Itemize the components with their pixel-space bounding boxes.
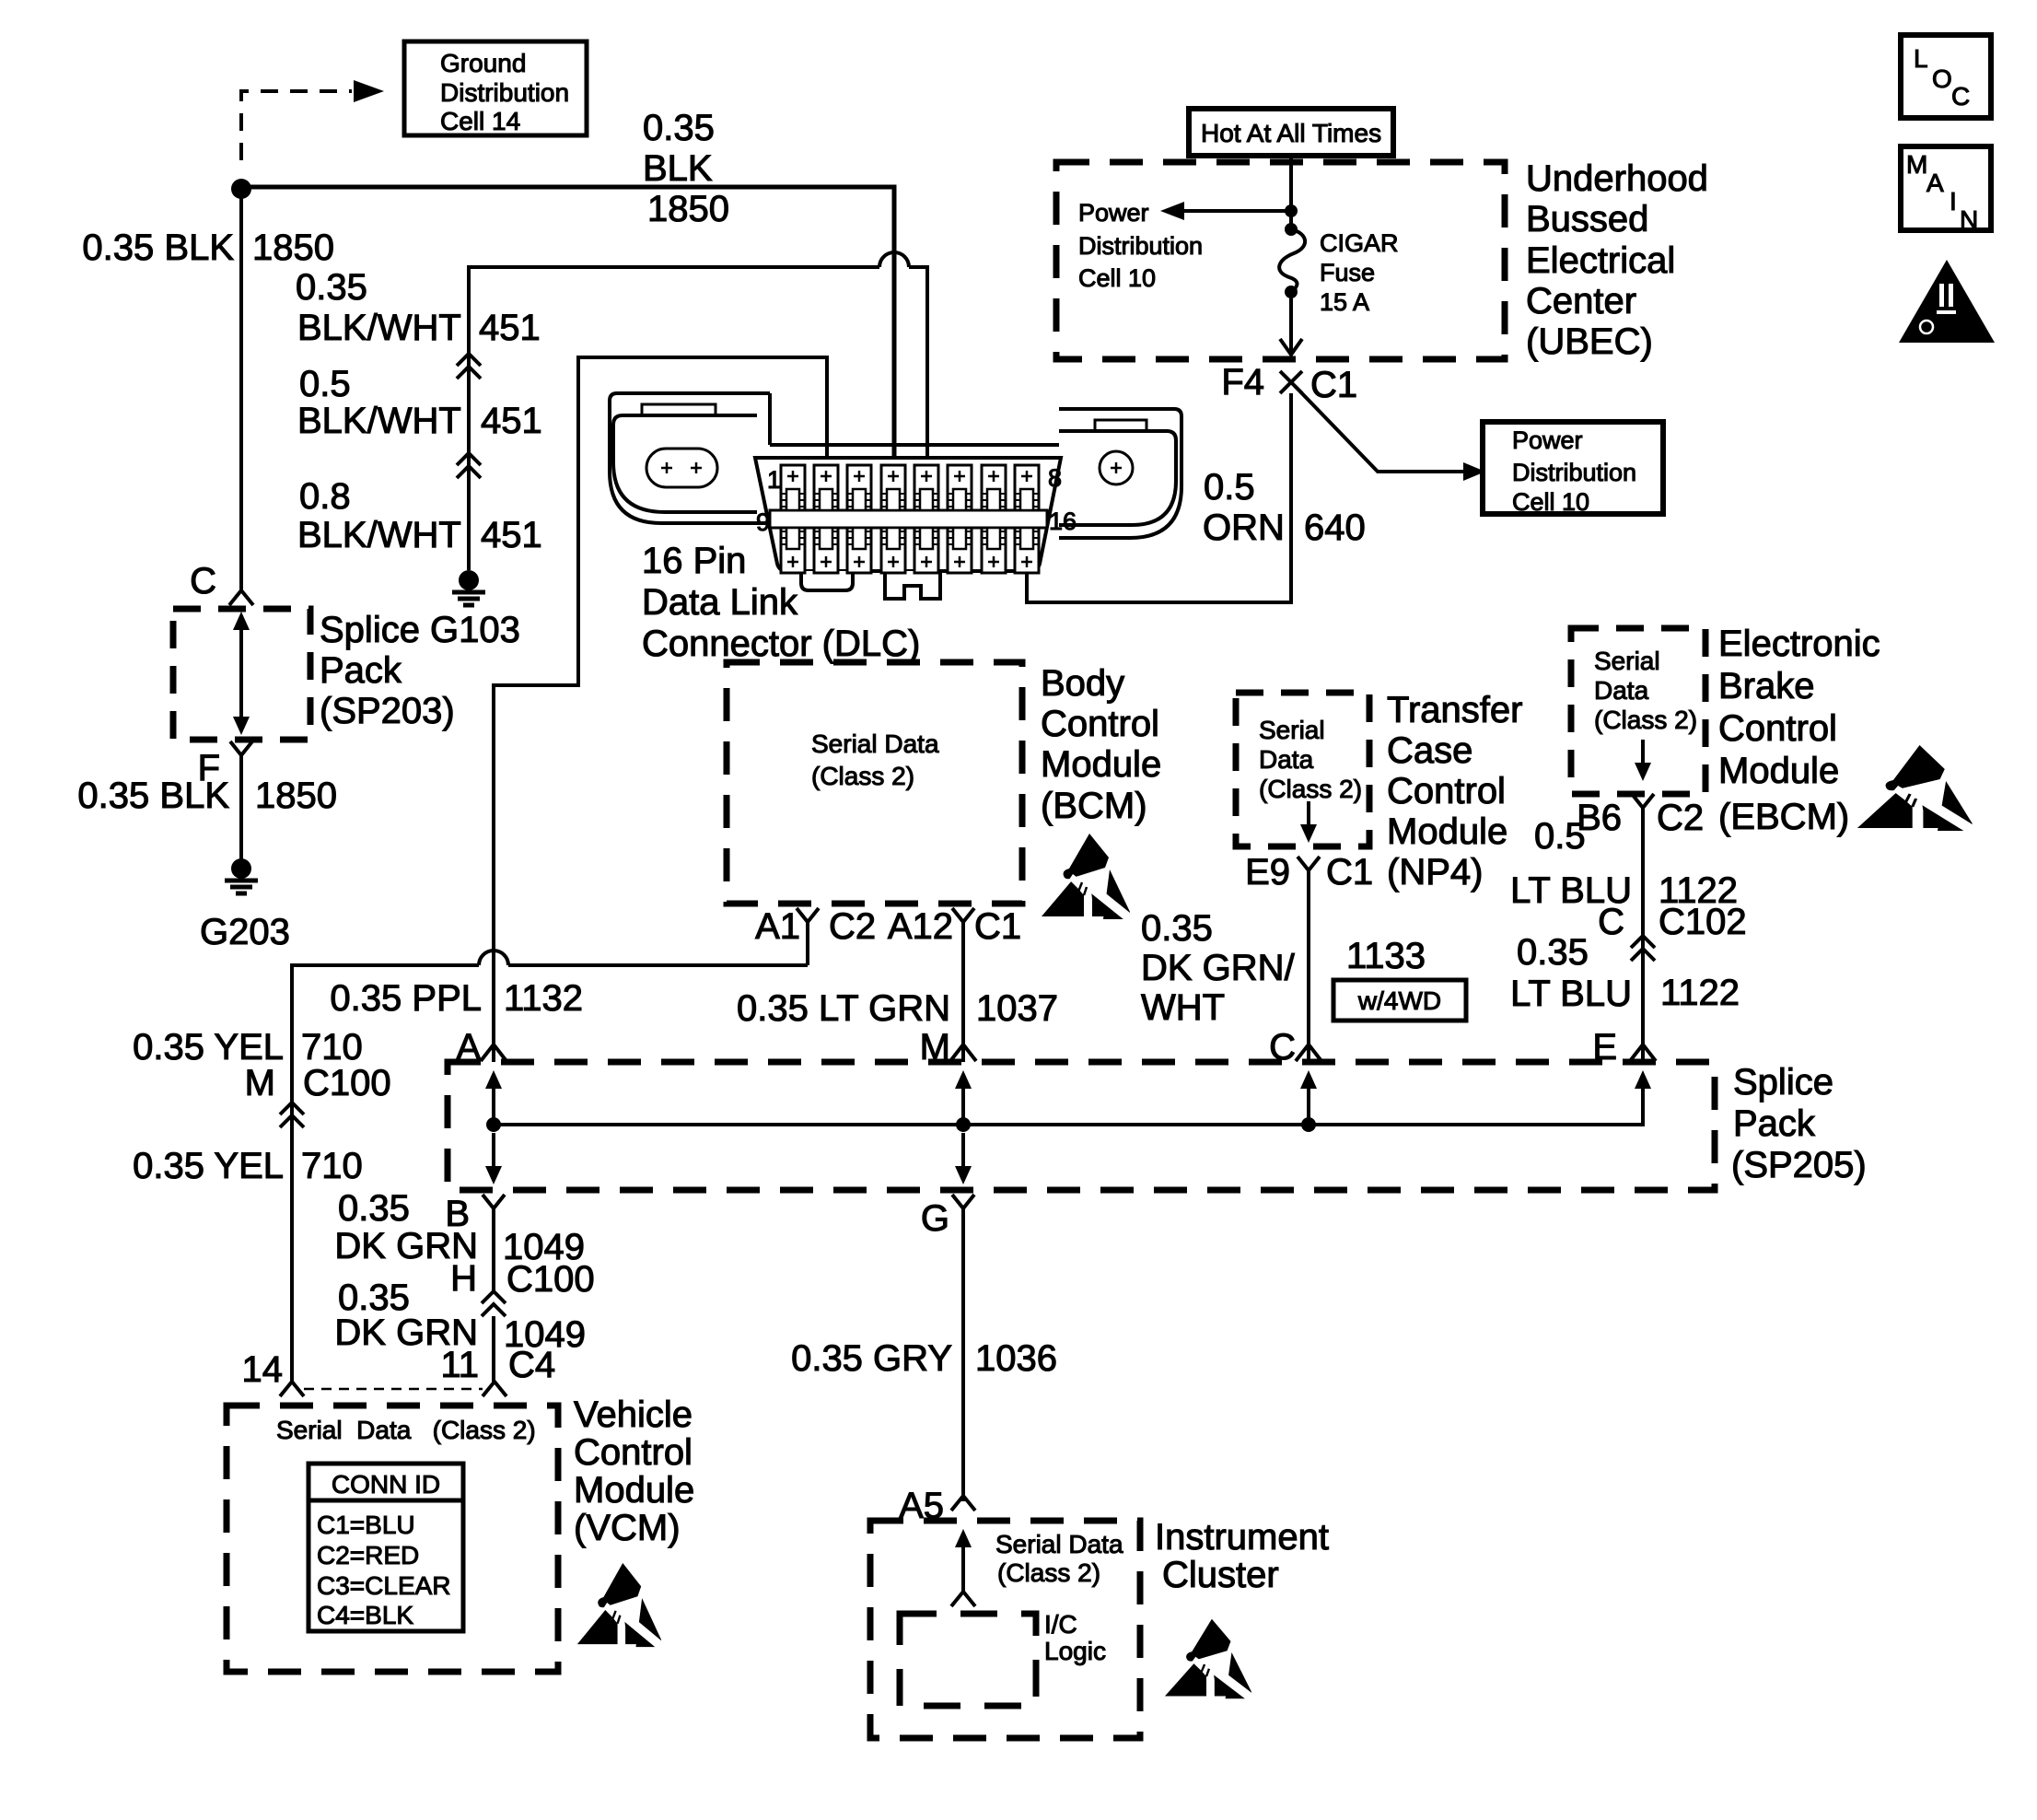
label 0.5 ORN 640 xyxy=(1203,467,1366,548)
svg-text:A: A xyxy=(1926,169,1944,197)
svg-text:Fuse: Fuse xyxy=(1320,259,1375,286)
svg-text:710: 710 xyxy=(301,1027,363,1067)
connector E9 C1 at transfer case xyxy=(1245,852,1373,892)
svg-text:451: 451 xyxy=(479,308,541,348)
svg-text:G203: G203 xyxy=(200,912,290,952)
svg-text:0.8: 0.8 xyxy=(299,476,351,517)
svg-text:0.35: 0.35 xyxy=(296,267,367,308)
svg-text:C: C xyxy=(1598,902,1624,942)
DLC pin 9 (bottom row) xyxy=(781,528,805,573)
svg-text:1122: 1122 xyxy=(1660,973,1740,1013)
wire 0.35 GRY 1036 from SP205 G to instrument cluster A5 xyxy=(961,1208,965,1501)
inline connector H / C100 xyxy=(450,1258,595,1316)
connector A1 C2 at BCM xyxy=(755,906,876,947)
SP205 internal arrows xyxy=(485,1070,502,1184)
svg-text:0.35 BLK: 0.35 BLK xyxy=(77,776,229,816)
svg-text:ORN: ORN xyxy=(1203,507,1285,548)
label 0.5 LT BLU 1122 xyxy=(1510,816,1738,911)
svg-text:Data: Data xyxy=(1594,676,1649,705)
DLC pin 10 (bottom row) xyxy=(814,528,838,573)
svg-text:Control: Control xyxy=(1387,771,1506,811)
svg-text:C1: C1 xyxy=(1310,365,1357,405)
wire 0.35 BLK 1850 to ground G203 xyxy=(239,755,243,860)
svg-text:1850: 1850 xyxy=(647,189,729,229)
svg-text:0.35 PPL: 0.35 PPL xyxy=(330,978,482,1019)
svg-text:A12: A12 xyxy=(888,906,953,947)
svg-text:16 Pin: 16 Pin xyxy=(642,541,746,581)
label 0.8 BLK/WHT 451 xyxy=(297,476,542,555)
wire 0.35 BLK 1850 left drop to connector C xyxy=(239,189,243,590)
label 0.5 BLK/WHT 451 xyxy=(297,364,542,441)
svg-text:C1=BLU: C1=BLU xyxy=(317,1511,415,1539)
label Vehicle Control Module (VCM) xyxy=(574,1394,694,1548)
DLC pin 15 (bottom row) xyxy=(982,528,1006,573)
connector A5 at instrument cluster xyxy=(899,1486,975,1526)
DLC pin 14 (bottom row) xyxy=(948,528,972,573)
svg-text:Splice: Splice xyxy=(1733,1062,1833,1102)
label 0.35 GRY 1036 xyxy=(791,1338,1057,1379)
svg-text:E9: E9 xyxy=(1245,852,1290,892)
svg-text:(EBCM): (EBCM) xyxy=(1718,797,1849,837)
svg-text:451: 451 xyxy=(481,515,542,555)
ESD symbol (VCM) xyxy=(577,1563,663,1648)
svg-text:Transfer: Transfer xyxy=(1387,690,1522,730)
svg-text:710: 710 xyxy=(301,1146,363,1186)
connector F below SP203 xyxy=(198,741,252,788)
junction node (splice of BLK 1850 wires) xyxy=(231,179,251,199)
svg-text:Data: Data xyxy=(1259,745,1314,774)
svg-text:1037: 1037 xyxy=(976,988,1058,1029)
svg-text:0.35: 0.35 xyxy=(1141,908,1213,949)
DLC pin number labels xyxy=(756,464,1077,536)
svg-text:I/C: I/C xyxy=(1044,1610,1077,1639)
svg-text:Cluster: Cluster xyxy=(1162,1555,1279,1595)
EBCM serial data dashed box xyxy=(1571,628,1705,794)
label 0.35 DK GRN 1049 (lower) xyxy=(334,1277,586,1355)
label 0.35 LT GRN 1037 xyxy=(737,988,1058,1029)
svg-text:640: 640 xyxy=(1304,507,1366,548)
svg-text:BLK/WHT: BLK/WHT xyxy=(297,401,461,441)
label Transfer Case Control Module (NP4) xyxy=(1387,690,1522,892)
svg-text:CONN ID: CONN ID xyxy=(332,1470,440,1499)
ground G203 xyxy=(200,858,290,952)
DLC pin 6 (top row) xyxy=(948,465,972,510)
label 0.35 DK GRN 1049 (upper) xyxy=(334,1188,585,1267)
label Serial Data (Class 2) in instrument cluster xyxy=(995,1530,1123,1587)
label 0.35 BLK 1850 (left) xyxy=(82,227,334,268)
svg-text:0.35 YEL: 0.35 YEL xyxy=(133,1146,284,1186)
UBEC dashed box xyxy=(1056,162,1505,359)
splice pack SP203 (Splice G103) xyxy=(173,609,520,740)
svg-text:451: 451 xyxy=(481,401,542,441)
svg-text:Serial Data (Class 2): Serial Data (Class 2) xyxy=(276,1416,536,1444)
svg-text:Electrical: Electrical xyxy=(1526,240,1675,281)
svg-text:WHT: WHT xyxy=(1141,987,1225,1028)
VCM pin 14 xyxy=(242,1349,305,1396)
connector G exit of SP205 xyxy=(921,1195,974,1239)
connector C at splice pack SP203 xyxy=(190,561,253,605)
wire 0.35 BLK 1850 top run to DLC pin 4 xyxy=(241,187,894,465)
svg-text:Cell 10: Cell 10 xyxy=(1078,264,1156,292)
svg-text:(Class 2): (Class 2) xyxy=(1259,775,1362,803)
inline connector C / C102 xyxy=(1598,902,1747,961)
svg-text:Distribution: Distribution xyxy=(1078,232,1203,260)
SP205 entry chevron M xyxy=(920,1027,976,1067)
svg-text:(SP203): (SP203) xyxy=(320,691,455,731)
svg-text:BLK/WHT: BLK/WHT xyxy=(297,515,461,555)
svg-text:Data Link: Data Link xyxy=(642,582,798,623)
label 0.35 PPL 1132 xyxy=(330,978,583,1019)
svg-text:Pack: Pack xyxy=(1733,1103,1816,1144)
svg-text:Power: Power xyxy=(1078,199,1149,227)
SP205 entry chevron A xyxy=(456,1027,506,1067)
svg-text:1133: 1133 xyxy=(1346,936,1426,976)
svg-text:BLK/WHT: BLK/WHT xyxy=(297,308,461,348)
I/C Logic inner dashed box xyxy=(900,1610,1106,1706)
svg-text:Serial: Serial xyxy=(1259,716,1325,744)
DLC pin 13 (bottom row) xyxy=(914,528,938,573)
svg-text:(Class 2): (Class 2) xyxy=(997,1558,1100,1587)
svg-text:M: M xyxy=(920,1027,950,1067)
svg-text:Control: Control xyxy=(1718,708,1837,749)
instrument cluster dashed box xyxy=(870,1521,1140,1738)
label Instrument Cluster xyxy=(1155,1517,1329,1595)
svg-text:(VCM): (VCM) xyxy=(574,1508,681,1548)
label Power Distribution Cell 10 (UBEC internal) xyxy=(1078,199,1203,292)
svg-text:0.5: 0.5 xyxy=(1204,467,1255,507)
svg-text:L: L xyxy=(1914,44,1928,73)
svg-text:I: I xyxy=(1950,187,1957,216)
SP205 entry chevron E xyxy=(1592,1027,1656,1067)
svg-text:w/4WD: w/4WD xyxy=(1357,986,1441,1015)
DLC pin 4 (top row) xyxy=(881,465,905,510)
box: Ground Distribution Cell 14 xyxy=(404,41,587,135)
wire 0.35 LT GRN 1037 from BCM A12 to SP205 M xyxy=(961,922,965,1062)
label 0.35 YEL 710 (lower) xyxy=(133,1146,363,1186)
internal arrow and connector in instrument cluster xyxy=(951,1529,975,1606)
ESD symbol (BCM) xyxy=(1042,834,1132,920)
label Electronic Brake Control Module (EBCM) xyxy=(1718,624,1880,837)
svg-text:DK GRN/: DK GRN/ xyxy=(1141,948,1296,988)
VCM pin 11 xyxy=(440,1345,555,1396)
svg-text:N: N xyxy=(1960,205,1978,234)
svg-text:C: C xyxy=(1951,82,1970,111)
svg-text:Connector (DLC): Connector (DLC) xyxy=(642,624,920,664)
svg-text:0.35 YEL: 0.35 YEL xyxy=(133,1027,284,1067)
svg-text:A1: A1 xyxy=(755,906,800,947)
svg-text:0.5: 0.5 xyxy=(1534,816,1586,857)
label Body Control Module (BCM) xyxy=(1041,663,1161,826)
svg-text:H: H xyxy=(450,1258,477,1299)
svg-text:Electronic: Electronic xyxy=(1718,624,1880,664)
label Serial Data (Class 2) in VCM xyxy=(276,1416,536,1444)
box Power Distribution Cell 10 xyxy=(1483,422,1663,516)
svg-text:0.35 GRY: 0.35 GRY xyxy=(791,1338,952,1379)
svg-text:0.35 BLK: 0.35 BLK xyxy=(82,227,234,268)
svg-text:Ground: Ground xyxy=(440,49,526,77)
svg-text:C1: C1 xyxy=(1326,852,1373,892)
svg-text:F4: F4 xyxy=(1221,362,1264,402)
svg-text:15 A: 15 A xyxy=(1320,288,1369,316)
DLC pin 12 (bottom row) xyxy=(881,528,905,573)
svg-text:8: 8 xyxy=(1048,464,1062,492)
svg-text:Control: Control xyxy=(1041,704,1159,744)
wire 0.5 ORN 640 from F4/C1 to DLC pin 16 xyxy=(1027,393,1291,602)
svg-text:C2=RED: C2=RED xyxy=(317,1541,419,1569)
wire from BCM A1 down to junction with yellow wire xyxy=(806,922,809,965)
BCM dashed box (Serial Data Class 2) xyxy=(727,662,1022,904)
svg-text:0.35: 0.35 xyxy=(1517,932,1589,973)
transfer case serial data dashed box xyxy=(1236,693,1369,846)
svg-text:C4=BLK: C4=BLK xyxy=(317,1601,413,1629)
svg-text:G: G xyxy=(921,1198,949,1239)
svg-text:14: 14 xyxy=(242,1349,284,1390)
label 0.35 LT BLU 1122 xyxy=(1510,932,1740,1014)
svg-text:C100: C100 xyxy=(303,1063,391,1103)
thin dashed pin row line xyxy=(304,1388,483,1391)
svg-text:Case: Case xyxy=(1387,730,1472,771)
wire 0.35 YEL 710 horizontal run (hop over PPL wire) to VCM pin 14 xyxy=(292,951,808,1382)
label 0.35 DK GRN/ WHT 1133 xyxy=(1141,908,1426,1028)
svg-text:Distribution: Distribution xyxy=(440,78,569,107)
svg-text:C: C xyxy=(190,561,216,601)
svg-text:C100: C100 xyxy=(506,1259,595,1300)
VCM dashed box xyxy=(227,1406,558,1672)
wire BLK/WHT 451 from G103 up and across to DLC pin 5 (with hop over pin-4 wire) xyxy=(469,252,927,570)
svg-text:Pack: Pack xyxy=(320,650,402,691)
svg-text:C102: C102 xyxy=(1659,902,1747,942)
label Underhood Bussed Electrical Center (UBEC) xyxy=(1526,158,1708,362)
DLC pin 5 (top row) xyxy=(914,465,938,510)
svg-text:Bussed: Bussed xyxy=(1526,199,1648,239)
connector B exit of SP205 xyxy=(445,1194,505,1234)
wire LT BLU 1122 from EBCM to SP205 E xyxy=(1641,808,1645,1062)
wire from Hot At All Times into UBEC xyxy=(1285,156,1298,226)
inline connector chevrons on 451 wire xyxy=(457,354,481,379)
inline connector M / C100 on yellow wire xyxy=(245,1063,391,1127)
DLC pin 8 (top row) xyxy=(1015,465,1039,510)
svg-text:1850: 1850 xyxy=(255,776,337,816)
svg-text:Cell 14: Cell 14 xyxy=(440,107,520,135)
wire 0.35 DK GRN 1049 from SP205 B to VCM pin 11 xyxy=(492,1208,495,1382)
label 0.35 BLK 1850 (G203 branch) xyxy=(77,776,337,816)
svg-text:C1: C1 xyxy=(974,906,1021,947)
svg-text:0.35: 0.35 xyxy=(338,1188,410,1229)
ground G103 xyxy=(452,570,485,605)
wire 0.35 PPL 1132 from DLC pin 2 to splice pack SP205 A xyxy=(494,357,827,1062)
svg-text:1: 1 xyxy=(767,466,781,494)
svg-text:Underhood: Underhood xyxy=(1526,158,1708,199)
connector F4 / C1 xyxy=(1221,362,1357,405)
LOC reference box xyxy=(1901,35,1991,118)
DLC pin 1 (top row) xyxy=(781,465,805,510)
svg-text:LT BLU: LT BLU xyxy=(1510,974,1632,1014)
cell reference dashed arrow to Ground Distribution Cell 14 xyxy=(241,80,384,160)
svg-text:Serial: Serial xyxy=(1594,647,1660,675)
connector A12 C1 at BCM xyxy=(888,906,1021,947)
box Hot At All Times xyxy=(1189,109,1393,156)
svg-text:(Class 2): (Class 2) xyxy=(1594,706,1697,734)
svg-text:1132: 1132 xyxy=(504,978,583,1019)
label 0.35 BLK/WHT 451 xyxy=(296,267,541,348)
ESD symbol (EBCM) xyxy=(1857,745,1974,832)
svg-text:(Class 2): (Class 2) xyxy=(811,762,914,790)
wire 0.35 DK GRN/WHT 1133 to SP205 C xyxy=(1307,870,1310,1062)
svg-text:Power: Power xyxy=(1512,426,1583,454)
DLC pin 2 (top row) xyxy=(814,465,838,510)
svg-text:Module: Module xyxy=(1387,811,1507,852)
svg-text:M: M xyxy=(1906,150,1927,179)
svg-text:0.5: 0.5 xyxy=(299,364,351,404)
warning triangle symbol xyxy=(1899,260,1995,343)
svg-text:9: 9 xyxy=(756,508,770,536)
svg-text:C2: C2 xyxy=(829,906,876,947)
svg-text:Splice G103: Splice G103 xyxy=(320,610,520,650)
svg-text:Center: Center xyxy=(1526,281,1636,321)
svg-text:Hot At All Times: Hot At All Times xyxy=(1201,119,1381,147)
svg-text:Serial Data: Serial Data xyxy=(995,1530,1123,1558)
svg-text:O: O xyxy=(1932,64,1952,93)
ESD symbol (instrument cluster) xyxy=(1165,1619,1253,1699)
SP205 entry chevron C xyxy=(1269,1027,1321,1067)
svg-text:Logic: Logic xyxy=(1044,1637,1106,1665)
svg-text:0.35 LT GRN: 0.35 LT GRN xyxy=(737,988,950,1029)
label Splice Pack (SP205) xyxy=(1731,1062,1867,1185)
svg-text:A: A xyxy=(456,1027,481,1067)
svg-text:C3=CLEAR: C3=CLEAR xyxy=(317,1571,451,1600)
arrow to Power Distribution Cell 10 (internal) xyxy=(1160,202,1291,220)
svg-text:1036: 1036 xyxy=(975,1338,1057,1379)
splice pack SP205 dashed box xyxy=(448,1062,1715,1190)
svg-text:(SP205): (SP205) xyxy=(1731,1145,1867,1185)
label 0.35 YEL 710 (upper) xyxy=(133,1027,363,1067)
svg-text:Body: Body xyxy=(1041,663,1124,704)
svg-text:Instrument: Instrument xyxy=(1155,1517,1329,1557)
DLC pin 16 (bottom row) xyxy=(1015,528,1039,573)
svg-text:11: 11 xyxy=(440,1345,479,1385)
svg-text:0.35: 0.35 xyxy=(643,108,715,148)
svg-text:1850: 1850 xyxy=(252,227,334,268)
svg-text:Brake: Brake xyxy=(1718,666,1815,706)
svg-text:Vehicle: Vehicle xyxy=(574,1394,693,1435)
svg-text:Control: Control xyxy=(574,1432,693,1473)
16 pin data link connector DLC body xyxy=(610,393,1181,599)
svg-text:C2: C2 xyxy=(1657,798,1704,838)
svg-text:CIGAR: CIGAR xyxy=(1320,229,1399,257)
svg-text:Distribution: Distribution xyxy=(1512,459,1636,486)
SP205 bus wire with junction dots xyxy=(486,1076,1643,1132)
connector B6 C2 at EBCM xyxy=(1577,794,1704,838)
svg-text:E: E xyxy=(1592,1027,1617,1067)
svg-text:C: C xyxy=(1269,1027,1296,1067)
box w/4WD xyxy=(1333,980,1466,1021)
CONN ID table xyxy=(308,1464,463,1631)
svg-text:(NP4): (NP4) xyxy=(1387,852,1483,892)
fuse output wire with exit arrow at UBEC edge xyxy=(1280,292,1302,355)
svg-text:BLK: BLK xyxy=(643,148,713,189)
arrow to Power Distribution Cell 10 box xyxy=(1295,386,1485,481)
svg-text:(UBEC): (UBEC) xyxy=(1526,321,1653,362)
DLC pin 7 (top row) xyxy=(982,465,1006,510)
MAIN reference box xyxy=(1901,146,1991,234)
svg-text:Module: Module xyxy=(574,1470,694,1511)
svg-text:Serial Data: Serial Data xyxy=(811,729,939,758)
DLC pin 3 (top row) xyxy=(847,465,871,510)
label 0.35 BLK 1850 (top) xyxy=(643,108,729,229)
svg-text:Module: Module xyxy=(1041,744,1161,785)
svg-text:(BCM): (BCM) xyxy=(1041,786,1147,826)
svg-text:Cell 10: Cell 10 xyxy=(1512,488,1589,516)
CIGAR Fuse 15 A xyxy=(1279,223,1398,316)
svg-text:16: 16 xyxy=(1049,507,1077,535)
svg-text:Module: Module xyxy=(1718,751,1839,791)
DLC pin 11 (bottom row) xyxy=(847,528,871,573)
label 16 Pin Data Link Connector (DLC) xyxy=(642,541,920,664)
svg-text:M: M xyxy=(245,1063,275,1103)
svg-text:C4: C4 xyxy=(508,1345,555,1385)
